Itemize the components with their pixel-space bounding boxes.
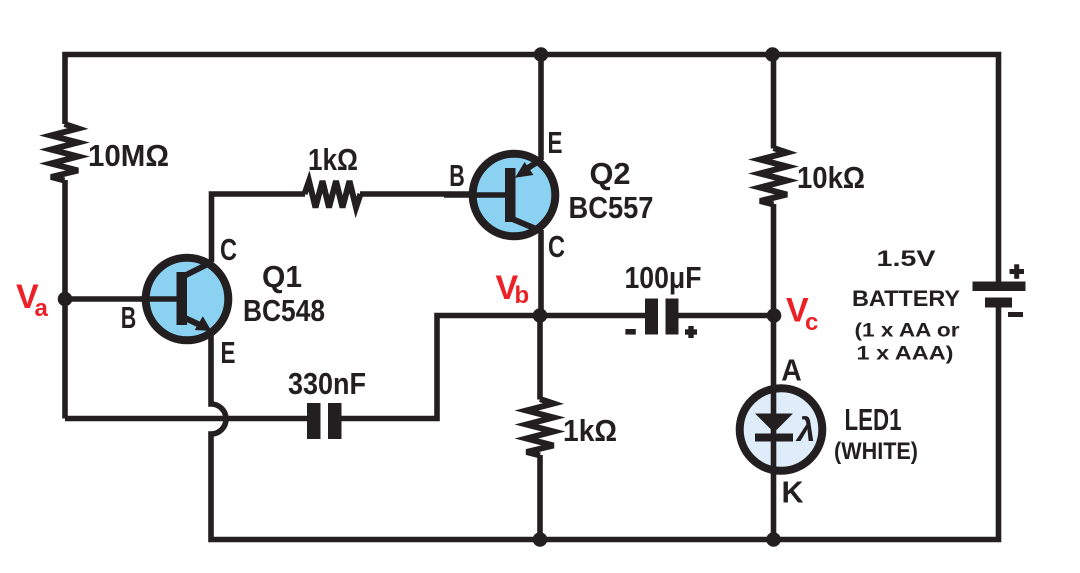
svg-text:330nF: 330nF [288, 366, 366, 401]
svg-text:E: E [221, 335, 236, 370]
svg-text:B: B [121, 300, 137, 335]
svg-text:Q1: Q1 [262, 259, 302, 294]
wire Q2 collector rail down to Vb [538, 230, 544, 316]
svg-text:10MΩ: 10MΩ [88, 138, 169, 173]
LED1 white [740, 388, 823, 471]
capacitor 100uF plates [645, 299, 658, 335]
capacitor 330nF plates [307, 403, 321, 439]
node junction dot top 10k rail [765, 47, 780, 62]
wire Q1 emitter down with hop over horizontal, bottom rail, up to battery minus [211, 308, 999, 540]
svg-text:C: C [220, 232, 237, 267]
battery plus sign [1010, 269, 1025, 274]
wire bottom-left horizontal to 330nF [65, 416, 307, 422]
transistor Q2 BC557 [444, 154, 555, 237]
wire 1k bottom resistor to bottom rail [537, 455, 543, 540]
wire left rail below 10M resistor down to bottom-left corner [62, 180, 68, 419]
svg-text:1kΩ: 1kΩ [563, 413, 617, 448]
svg-text:K: K [782, 475, 805, 510]
transistor Q1 BC548 [140, 258, 228, 341]
capacitor 100uF plus sign [685, 329, 697, 334]
svg-text:E: E [548, 125, 563, 160]
svg-text:1kΩ: 1kΩ [308, 142, 358, 177]
svg-text:A: A [781, 353, 802, 388]
node label Va [16, 278, 49, 322]
svg-text:a: a [35, 295, 49, 322]
svg-text:BC548: BC548 [243, 293, 325, 328]
battery long plate (positive) [973, 282, 1026, 292]
svg-text:(WHITE): (WHITE) [834, 438, 918, 465]
svg-text:BATTERY: BATTERY [852, 286, 960, 311]
svg-text:1 x AAA): 1 x AAA) [857, 343, 954, 365]
battery minus sign [1008, 312, 1023, 317]
resistor 1kohm top zigzag [305, 181, 361, 208]
node label Vc [786, 292, 818, 336]
svg-text:100μF: 100μF [625, 260, 702, 295]
svg-text:(1 x AA or: (1 x AA or [855, 320, 960, 342]
svg-text:c: c [805, 309, 818, 336]
node Vc junction dot [767, 308, 782, 323]
node Va junction dot [58, 292, 73, 307]
svg-text:B: B [449, 158, 465, 193]
svg-text:1.5V: 1.5V [877, 246, 936, 271]
wire 100uF to Vc [679, 313, 775, 319]
node junction dot bottom LED [766, 532, 781, 547]
svg-text:10kΩ: 10kΩ [797, 160, 865, 195]
wire Q2 emitter rail up to top [538, 55, 544, 161]
node Vb junction dot [533, 308, 548, 323]
wire 1k resistor to Q2 base [360, 191, 475, 197]
node junction dot top Q2 emitter [534, 47, 549, 62]
wire Vc rail top segment [771, 55, 777, 149]
resistor 1kohm bottom zigzag [527, 399, 554, 456]
wire Vb down to 1k bottom resistor [537, 316, 543, 400]
svg-text:Q2: Q2 [590, 156, 631, 191]
resistor 10Mohm zigzag [51, 124, 78, 181]
wire top rail with left and right verticals [65, 55, 999, 282]
node junction dot bottom 1k [533, 532, 548, 547]
svg-text:C: C [548, 229, 565, 264]
node label Vb [496, 269, 530, 309]
resistor 10kohm zigzag [760, 148, 787, 205]
battery short plate (negative) [985, 298, 1012, 308]
svg-text:b: b [515, 282, 530, 309]
wire Va base wire to Q1 [65, 296, 150, 302]
capacitor 100uF minus sign [625, 329, 635, 335]
svg-text:λ: λ [795, 411, 815, 448]
wire Vc rail through Vc node and LED to bottom rail [771, 204, 777, 540]
svg-text:BC557: BC557 [569, 190, 654, 225]
wire 330nF right to corner up to Vb rail and on to 100uF [342, 316, 646, 419]
svg-text:LED1: LED1 [845, 402, 902, 437]
wire Q1 collector up and right to 1k resistor [212, 194, 306, 262]
